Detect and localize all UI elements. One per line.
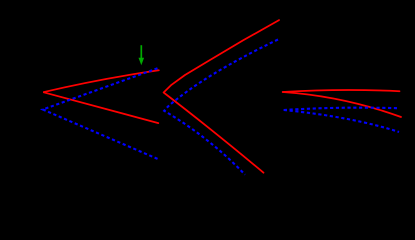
middle panel: blue dashed curve (upper + lower branch)	[164, 40, 278, 175]
left panel: red solid curve (wedge)	[43, 70, 159, 123]
left panel: blue dashed curve (wedge)	[43, 68, 159, 159]
middle panel: red solid curve (upper + lower branch)	[164, 20, 279, 173]
right panel: red solid upper branch	[283, 90, 400, 92]
right panel: red solid lower branch	[283, 92, 401, 117]
right panel: blue dashed upper branch	[284, 108, 397, 110]
green arrow marker	[139, 45, 145, 65]
right panel: blue dashed lower branch	[284, 110, 399, 132]
